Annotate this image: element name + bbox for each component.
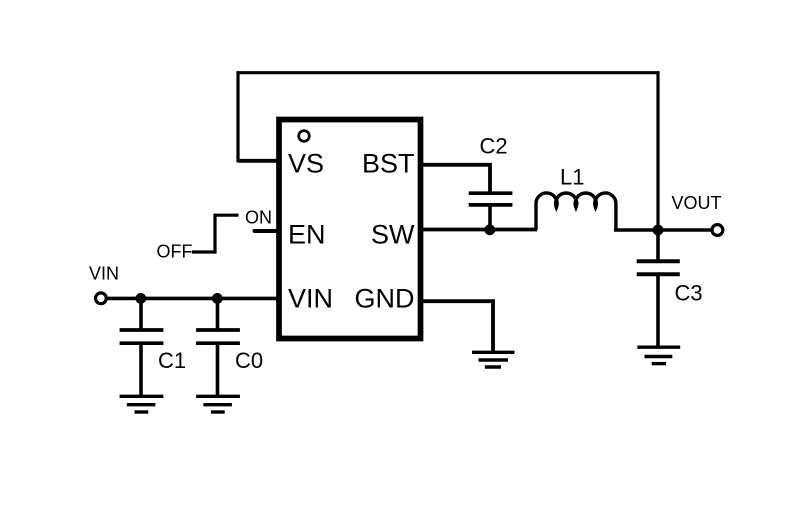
ground (C1) bbox=[120, 396, 164, 412]
ground (C3) bbox=[637, 347, 680, 363]
capacitor C2 bbox=[469, 193, 513, 230]
ground (C0) bbox=[196, 396, 240, 412]
wire BST to C2 bbox=[423, 165, 490, 192]
terminal VOUT bbox=[712, 225, 723, 236]
svg-text:L1: L1 bbox=[560, 165, 584, 190]
svg-text:OFF: OFF bbox=[157, 242, 193, 262]
svg-text:VS: VS bbox=[288, 149, 324, 179]
svg-text:C2: C2 bbox=[480, 134, 508, 159]
junction C2/SW bbox=[484, 224, 495, 235]
capacitor C0 bbox=[196, 298, 240, 396]
junction VIN/C1 bbox=[135, 293, 146, 304]
svg-text:VOUT: VOUT bbox=[672, 193, 722, 213]
svg-text:C1: C1 bbox=[158, 348, 186, 373]
IC pin-1 indicator dot bbox=[299, 131, 310, 142]
svg-text:C0: C0 bbox=[235, 348, 263, 373]
switch S1 OFF-ON lever bbox=[192, 215, 239, 252]
ground (IC GND pin) bbox=[472, 352, 515, 367]
wire L1 to VOUT terminal bbox=[614, 228, 713, 232]
svg-text:C3: C3 bbox=[675, 281, 703, 306]
wire EN pin stub bbox=[255, 229, 280, 233]
wire GND pin to ground bbox=[423, 301, 493, 352]
wire VOUT node to C3 bbox=[656, 230, 660, 260]
wire VS pin stub bbox=[238, 159, 279, 163]
inductor L1 bbox=[536, 193, 616, 230]
svg-text:EN: EN bbox=[288, 220, 326, 250]
wire SW to L1 bbox=[423, 228, 537, 232]
wire VIN rail bbox=[107, 297, 279, 301]
junction VOUT node bbox=[653, 225, 664, 236]
svg-text:GND: GND bbox=[355, 284, 415, 314]
svg-text:VIN: VIN bbox=[89, 264, 119, 284]
svg-text:BST: BST bbox=[362, 149, 415, 179]
svg-text:ON: ON bbox=[245, 208, 272, 228]
capacitor C3 bbox=[637, 261, 680, 347]
wire VS-VOUT feedback loop bbox=[238, 73, 658, 230]
junction VIN/C0 bbox=[212, 293, 223, 304]
terminal VIN bbox=[96, 293, 107, 304]
capacitor C1 bbox=[120, 298, 164, 396]
svg-text:SW: SW bbox=[371, 220, 415, 250]
svg-text:VIN: VIN bbox=[288, 284, 333, 314]
IC U1 body (regulator) bbox=[279, 120, 421, 339]
